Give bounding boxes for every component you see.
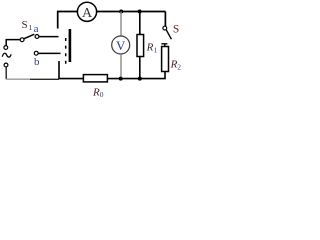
AC source terminal bottom — [4, 63, 8, 67]
svg-text:b: b — [34, 56, 40, 68]
resistor R1 — [137, 35, 144, 57]
contact b — [34, 51, 38, 55]
switch S contact — [163, 26, 167, 30]
resistor R2 — [162, 47, 169, 72]
switch S blade — [166, 30, 171, 39]
wire ammeter to right corner — [97, 11, 166, 13]
wire R2 to bottom wire — [164, 72, 166, 79]
resistor R0 — [83, 75, 107, 82]
svg-text:S: S — [173, 23, 179, 35]
wire R1 branch lower — [139, 57, 141, 79]
wire transformer bottom stub — [59, 61, 83, 79]
svg-text:V: V — [116, 38, 126, 53]
svg-text:A: A — [82, 6, 93, 21]
wire R1 branch upper — [139, 12, 141, 35]
switch S1 pivot contact — [20, 38, 24, 42]
svg-text:R: R — [146, 42, 154, 54]
node junction bottom R1 — [138, 77, 142, 81]
wire voltmeter branch upper (gray) — [120, 12, 122, 37]
svg-text:1: 1 — [28, 23, 32, 32]
wire top-left from transformer top to ammeter — [58, 12, 78, 29]
node junction bottom voltmeter — [119, 77, 123, 81]
AC source tilde — [2, 53, 11, 57]
svg-text:2: 2 — [177, 63, 181, 72]
ammeter U-A — [77, 2, 96, 21]
node junction top R1 — [138, 10, 142, 14]
wire contact a to transformer — [39, 36, 59, 38]
wire bottom right — [107, 78, 165, 80]
switch S1 blade — [24, 34, 35, 39]
svg-text:S: S — [22, 19, 28, 31]
svg-text:a: a — [34, 23, 39, 35]
transformer core dashed — [65, 38, 67, 66]
voltmeter U-V — [112, 36, 130, 54]
wire bottom-left to corner — [30, 78, 59, 80]
contact a — [35, 35, 39, 39]
switch S lower contact tee — [161, 44, 167, 47]
svg-text:R: R — [92, 86, 100, 98]
wire source bottom down — [5, 67, 7, 79]
svg-text:0: 0 — [100, 90, 104, 99]
wire source to S1 pivot — [6, 40, 20, 46]
AC source terminal top — [4, 46, 8, 50]
wire voltmeter branch lower (gray) — [120, 54, 122, 78]
node junction top voltmeter — [119, 10, 123, 14]
wire contact b to transformer — [38, 52, 60, 54]
transformer coil bar — [69, 29, 72, 62]
svg-text:1: 1 — [154, 46, 158, 55]
wire right branch to switch — [164, 12, 166, 27]
